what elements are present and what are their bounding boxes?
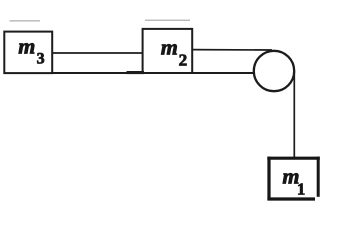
label m1 xyxy=(282,164,305,199)
wire table surface xyxy=(4,72,257,74)
block m2 xyxy=(143,29,193,73)
ghost line above m3 xyxy=(10,20,41,21)
svg-text:3: 3 xyxy=(37,51,45,68)
svg-text:1: 1 xyxy=(297,179,305,198)
block m1 xyxy=(267,157,320,201)
svg-text:m: m xyxy=(18,34,35,59)
wire rope pulley to m1 xyxy=(293,71,295,158)
surface dash near m2 xyxy=(127,71,145,74)
svg-text:2: 2 xyxy=(179,50,188,69)
wire rope m2 to pulley xyxy=(192,49,272,51)
pulley xyxy=(254,51,294,91)
wire rope m3 to m2 xyxy=(52,52,143,54)
ghost line above m2 xyxy=(145,20,190,21)
svg-text:m: m xyxy=(161,35,178,60)
label m3 xyxy=(18,34,44,68)
label m2 xyxy=(161,35,187,70)
block m3 xyxy=(4,32,52,74)
